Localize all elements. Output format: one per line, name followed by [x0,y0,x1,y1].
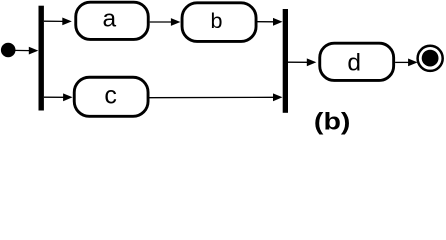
svg-text:(b): (b) [314,109,351,136]
svg-text:b: b [211,9,223,33]
svg-text:a: a [102,6,116,33]
svg-text:d: d [347,50,361,77]
svg-text:c: c [104,81,117,109]
